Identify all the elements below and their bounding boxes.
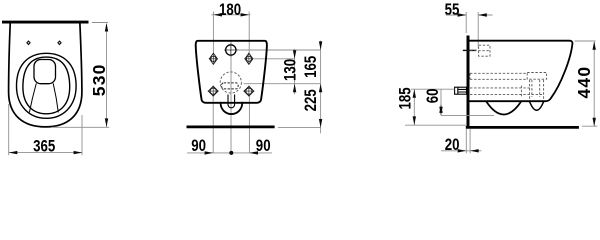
svg-text:440: 440	[574, 66, 594, 99]
svg-text:130: 130	[282, 59, 299, 81]
svg-text:90: 90	[191, 138, 206, 155]
svg-text:55: 55	[445, 2, 460, 19]
svg-text:530: 530	[89, 63, 109, 96]
svg-text:60: 60	[425, 89, 442, 104]
svg-text:20: 20	[445, 137, 460, 154]
svg-text:185: 185	[397, 87, 414, 109]
svg-text:180: 180	[219, 2, 241, 19]
svg-text:225: 225	[303, 89, 320, 111]
svg-text:165: 165	[303, 56, 320, 78]
svg-text:365: 365	[33, 138, 55, 155]
svg-text:90: 90	[256, 138, 271, 155]
